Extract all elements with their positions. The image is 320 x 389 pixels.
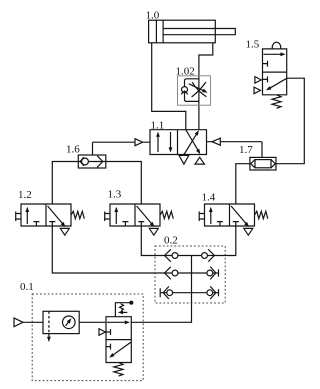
shuttle valve 1.6 flow line: [78, 161, 106, 163]
valve 1.4 left box flow arrow: [210, 211, 212, 224]
shuttle valve 1.6 ball: [82, 158, 89, 165]
valve 1.3 exhaust triangle: [149, 228, 158, 235]
valve 1.1 supply triangle P: [195, 157, 204, 164]
svg-text:1.2: 1.2: [18, 189, 32, 201]
wire valve 1.3 to manifold row 1 to valve 1.4: [141, 226, 236, 256]
shuttle valve 1.6 left seat: [80, 157, 84, 166]
shutoff valve 0.1 top box blocked port: [106, 329, 111, 335]
shutoff valve 0.1 bottom box flow arrow: [113, 342, 131, 355]
valve 1.2 right box flow arrow: [48, 206, 63, 224]
manifold 0.2 row1 left coupling: [165, 249, 178, 261]
supply unit 0.1 enclosure: [32, 294, 143, 381]
compressed air source: [14, 318, 23, 327]
manifold 0.2 row2 left coupling: [165, 267, 178, 279]
flow control 1.02 adjust arrow: [189, 84, 204, 91]
shutoff valve 0.1 exhaust triangle: [99, 329, 105, 336]
wire valve 1.2 output to shuttle 1.6 left input: [52, 162, 78, 205]
valve 1.1 right box crossed arrow 2: [186, 130, 198, 151]
wire valve 1.3 output to shuttle 1.6 right input: [106, 162, 142, 205]
manifold 0.2 row1 right coupling: [202, 249, 215, 261]
wire valve 1.4 output to valve 1.7 left input: [236, 164, 250, 204]
valve 1.2 left box blocked port: [33, 222, 39, 226]
shutoff valve 0.1 bottom box blocked port: [106, 344, 111, 350]
wire cylinder right port to flow control 1.02 and valve 1.1 port B: [199, 43, 213, 130]
svg-text:0.2: 0.2: [164, 234, 178, 246]
valve 1.2 left box flow arrow: [26, 211, 28, 224]
shutoff valve 0.1 detent notch: [120, 304, 124, 311]
valve 1.4 right box flow arrow: [231, 206, 246, 224]
shutoff valve 0.1 detent lever: [115, 303, 129, 317]
flow control 1.02 check bypass: [185, 79, 199, 102]
shutoff valve 0.1 return spring: [114, 363, 123, 377]
shuttle valve 1.6 right seat: [97, 156, 103, 168]
wire service unit to valve 0.1: [79, 321, 106, 323]
service unit 0.1 drain arrow: [48, 334, 50, 338]
wire manifold row 3: [160, 292, 218, 294]
valve 1.5 exhaust triangle: [254, 87, 261, 94]
valve 1.4 return spring: [255, 211, 268, 218]
manifold 0.2 row2 right plugged coupling: [207, 267, 219, 280]
valve 1.1 right pilot arrowhead: [212, 138, 220, 145]
service unit 0.1 gauge needle: [66, 321, 70, 326]
valve 1.3 right box blocked port: [138, 222, 144, 226]
wire pilot line shuttle 1.6 to valve 1.1 left: [93, 142, 151, 155]
valve 1.2 plunger actuator: [16, 212, 21, 222]
valve 1.4 right box blocked port: [233, 222, 239, 226]
valve 1.2 exhaust triangle: [60, 228, 69, 235]
manifold 0.2 row3 right plugged coupling: [207, 286, 219, 299]
valve 1.5 bottom box flow arrow: [270, 78, 287, 88]
wire valve 1.5 output to valve 1.7 right input: [276, 78, 304, 164]
flow control valve 1.02 enclosure: [178, 76, 211, 105]
wire pilot line valve 1.7 to valve 1.1 right: [207, 142, 263, 158]
valve 1.1 body: [150, 130, 207, 155]
valve 1.5 body: [263, 49, 287, 95]
valve 1.2 return spring: [71, 211, 84, 218]
valve 1.5 top box arrow: [264, 53, 282, 55]
cylinder 1.0 rod: [163, 29, 235, 35]
valve 1.3 right box flow arrow: [137, 206, 152, 224]
valve 1.2 body: [21, 204, 71, 226]
valve 1.3 return spring: [160, 211, 173, 218]
valve 1.5 return spring: [272, 95, 281, 109]
wire supply riser from unit 0.1 through manifold: [131, 256, 191, 323]
shutoff valve 0.1 top box arrow: [107, 321, 126, 323]
valve 1.5 bottom box blocked port: [263, 76, 268, 82]
svg-text:1.6: 1.6: [66, 143, 80, 155]
valve 1.5 push button: [272, 42, 281, 49]
cylinder 1.0 barrel: [149, 20, 216, 43]
valve 1.3 left box blocked port: [122, 222, 128, 226]
two-pressure valve 1.7 left seat: [251, 160, 255, 168]
valve 1.5 top box blocked port: [263, 61, 268, 67]
svg-text:1.7: 1.7: [239, 144, 253, 156]
valve 1.4 body: [205, 204, 255, 226]
two-pressure valve 1.7 right seat: [271, 160, 275, 168]
shuttle valve 1.6 body: [78, 155, 106, 168]
valve 1.1 left box up arrow: [157, 136, 159, 152]
flow control 1.02 check seat: [181, 91, 188, 94]
wire valve 1.2 to manifold row 2: [52, 226, 218, 273]
valve 1.4 plunger actuator: [199, 212, 204, 222]
valve 1.2 right box blocked port: [49, 222, 55, 226]
two-pressure valve 1.7 shuttle piece: [255, 160, 271, 168]
flow control 1.02 throttle: [192, 82, 207, 97]
svg-text:0.1: 0.1: [20, 281, 34, 293]
valve 1.5 supply triangle: [255, 77, 261, 84]
valve 1.1 left box down arrow: [170, 132, 172, 148]
valve 1.3 left box flow arrow: [115, 211, 117, 224]
service unit 0.1 body: [43, 311, 79, 333]
flow control 1.02 check ball: [182, 87, 188, 93]
shutoff valve 0.1 actuation arrow: [122, 311, 127, 313]
cylinder 1.0 piston: [156, 20, 163, 43]
valve 1.4 exhaust triangle: [244, 228, 253, 235]
manifold 0.2 row3 left plugged coupling: [160, 286, 172, 299]
manifold 0.2 enclosure: [155, 246, 225, 303]
svg-text:1.4: 1.4: [202, 191, 216, 203]
valve 1.3 plunger actuator: [105, 212, 110, 222]
valve 1.3 body: [110, 204, 160, 226]
valve 1.1 left pilot arrowhead: [135, 139, 143, 146]
wire cylinder left port to valve 1.1 port A: [152, 43, 186, 130]
shutoff valve 0.1 lever knob: [129, 301, 133, 305]
service unit 0.1 filter line: [48, 311, 50, 333]
valve 1.1 exhaust triangle R: [179, 155, 189, 164]
service unit 0.1 gauge: [63, 316, 76, 329]
valve 1.1 right box crossed arrow 1: [184, 134, 197, 155]
wire source to service unit: [23, 321, 43, 323]
two-pressure valve 1.7 body: [250, 157, 276, 170]
valve 1.4 left box blocked port: [217, 222, 223, 226]
svg-text:1.5: 1.5: [246, 38, 260, 50]
shutoff valve 0.1 body: [106, 317, 131, 363]
svg-text:1.3: 1.3: [108, 189, 122, 201]
